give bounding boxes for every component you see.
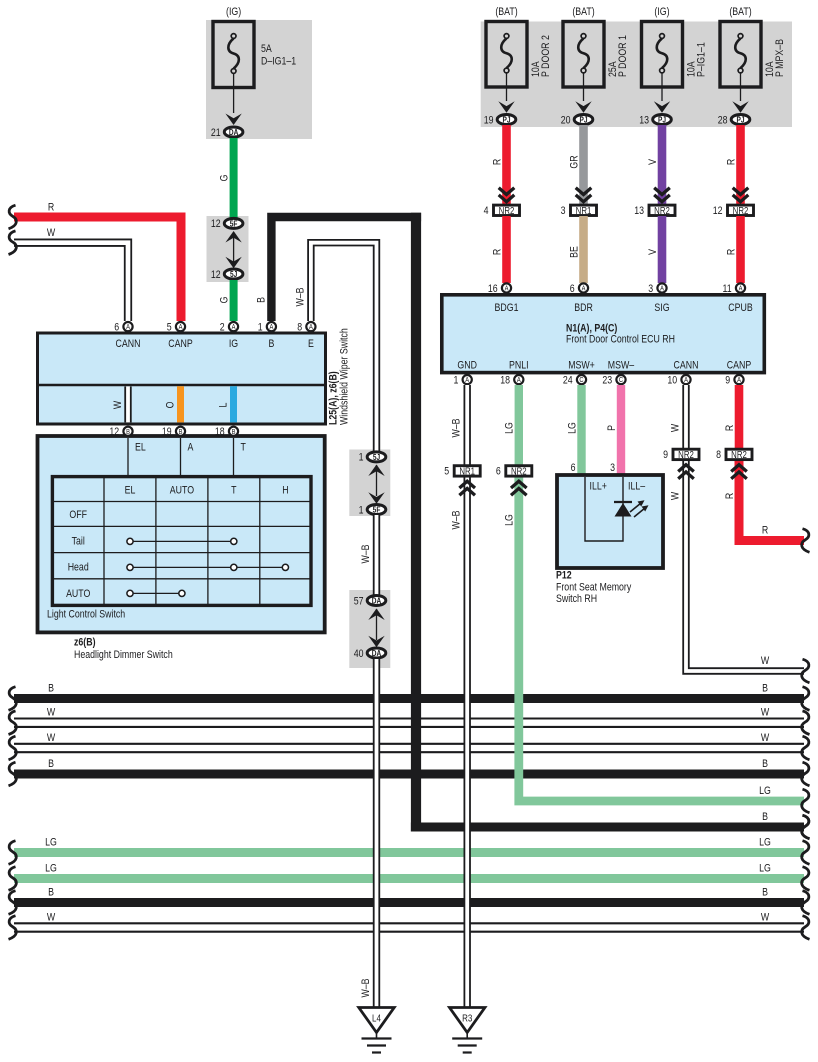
svg-text:6: 6 (571, 462, 576, 474)
pin 12 B (109, 426, 132, 438)
svg-text:W–B: W–B (360, 978, 372, 997)
svg-text:(BAT): (BAT) (572, 6, 594, 18)
svg-text:AUTO: AUTO (66, 588, 90, 600)
label V col3 lower (647, 249, 659, 255)
svg-text:MSW+: MSW+ (568, 360, 595, 372)
connector block background DA/DA (349, 590, 390, 668)
svg-text:6: 6 (496, 466, 501, 478)
fuse 25A P DOOR 1 box (563, 22, 604, 88)
label (BAT) fuse P DOOR 2 (495, 6, 517, 18)
svg-text:5J: 5J (230, 269, 237, 279)
wire R CANP upper (735, 385, 744, 449)
svg-text:BDR: BDR (574, 302, 593, 314)
svg-text:A: A (188, 442, 194, 454)
svg-text:A: A (660, 285, 664, 293)
wire W1 W horizontal bus y=722.7 (14, 717, 804, 728)
svg-text:11: 11 (723, 283, 733, 295)
svg-text:z6(B): z6(B) (74, 637, 96, 649)
svg-text:13: 13 (639, 114, 649, 126)
svg-text:10: 10 (667, 375, 677, 387)
label (BAT) fuse P MPX–B (729, 6, 751, 18)
svg-text:B: B (48, 682, 54, 694)
label W-B GND lower (451, 510, 463, 529)
svg-text:5: 5 (444, 466, 449, 478)
svg-text:W: W (761, 707, 770, 719)
squiggle R wire left end (9, 205, 17, 229)
svg-text:8: 8 (297, 322, 302, 334)
contacts Head row (127, 564, 289, 570)
svg-text:A: A (684, 377, 688, 385)
svg-text:A: A (517, 377, 521, 385)
svg-text:(IG): (IG) (226, 6, 241, 18)
svg-text:IG: IG (229, 338, 238, 350)
label 25A P DOOR 1 rotated (607, 35, 629, 77)
label G lower (219, 297, 231, 304)
svg-text:GND: GND (457, 360, 477, 372)
wire R NR2 to pin 16 (502, 216, 511, 283)
svg-text:EL: EL (125, 485, 136, 497)
svg-text:Headlight Dimmer Switch: Headlight Dimmer Switch (74, 649, 173, 661)
arrow fuse to node 21 DA (225, 74, 241, 125)
label LG PNLI lower (504, 514, 516, 526)
column stub A (181, 438, 194, 477)
label P12 Front Seat Memory Switch RH (556, 570, 631, 606)
svg-text:28: 28 (718, 114, 728, 126)
label W-B GND upper (451, 418, 463, 437)
svg-text:R: R (762, 524, 768, 536)
node 12 5J (211, 269, 243, 281)
svg-text:A: A (179, 324, 183, 332)
P12 internal wiring (585, 477, 623, 541)
svg-text:CANN: CANN (674, 360, 699, 372)
svg-text:W: W (761, 911, 770, 923)
svg-text:A: A (739, 285, 743, 293)
pin 6 A BDR (570, 283, 588, 295)
svg-text:V: V (647, 159, 659, 165)
svg-text:2: 2 (220, 322, 225, 334)
ECU top pin labels (495, 302, 754, 314)
svg-text:NR2: NR2 (499, 205, 515, 216)
arrow fuse P–IG1–1 to node 13 PJ (654, 73, 670, 113)
wire LG MSW+ to P12 (577, 385, 585, 476)
label BE col2 lower (568, 246, 580, 258)
fuse 10A P MPX–B box (720, 22, 761, 88)
svg-text:PJ: PJ (736, 115, 744, 125)
bus wire colour labels (45, 682, 771, 923)
wire W CANN to right edge (686, 460, 804, 671)
label (IG) fuse P–IG1–1 (654, 6, 669, 18)
svg-text:P: P (606, 425, 618, 431)
svg-text:1: 1 (258, 322, 263, 334)
svg-text:NR2: NR2 (654, 205, 670, 216)
svg-text:18: 18 (500, 375, 510, 387)
svg-text:D–IG1–1: D–IG1–1 (261, 56, 297, 68)
chevrons above 3 NR1 (576, 188, 592, 202)
wire W CANN upper (682, 385, 689, 449)
svg-text:B: B (762, 758, 768, 770)
svg-text:PJ: PJ (658, 115, 666, 125)
label 10A P–IG1–1 rotated (686, 42, 708, 77)
squiggle W wire left end (9, 231, 17, 255)
svg-text:A: A (737, 377, 741, 385)
svg-text:A: A (269, 324, 273, 332)
svg-text:24: 24 (563, 375, 573, 387)
LED illumination lamp (614, 500, 649, 517)
svg-text:20: 20 (561, 114, 571, 126)
svg-text:PJ: PJ (579, 115, 587, 125)
svg-text:P MPX–B: P MPX–B (774, 39, 786, 77)
svg-text:1: 1 (359, 504, 364, 516)
svg-text:OFF: OFF (69, 509, 87, 521)
side label L25(A) z6(B) Windshield Wiper Switch (328, 328, 351, 425)
label R CANP horizontal (762, 524, 768, 536)
svg-text:R: R (48, 202, 54, 214)
svg-text:CANP: CANP (168, 338, 193, 350)
connector 8 NR2 (716, 449, 752, 461)
svg-text:V: V (647, 249, 659, 255)
svg-text:C: C (579, 377, 583, 385)
svg-text:NR2: NR2 (733, 205, 749, 216)
ECU bottom pin labels (457, 360, 751, 372)
node 28 PJ (718, 114, 750, 126)
pin 5 A CANP (167, 322, 185, 334)
svg-text:G: G (219, 297, 231, 304)
svg-text:E: E (308, 338, 314, 350)
label (BAT) fuse P DOOR 1 (572, 6, 594, 18)
contacts AUTO row (127, 590, 185, 596)
pin 16 A BDG1 (488, 283, 511, 295)
wire W-B from pin E up and over (311, 243, 377, 451)
svg-text:LG: LG (759, 862, 771, 874)
svg-text:C: C (619, 377, 623, 385)
wire LG2 LG horizontal bus y=878.5 (14, 874, 804, 883)
arrow fuse P DOOR 2 to node 19 PJ (498, 73, 514, 113)
svg-text:12: 12 (211, 269, 221, 281)
svg-text:W: W (112, 400, 124, 409)
wire P MSW- to P12 (617, 385, 625, 476)
stub wire W inside switch (124, 387, 131, 423)
chevrons above 4 NR2 (499, 188, 515, 202)
svg-text:A: A (126, 324, 130, 332)
svg-text:O: O (164, 401, 176, 408)
svg-text:LG: LG (566, 422, 578, 434)
svg-text:NR1: NR1 (576, 205, 592, 216)
svg-text:NR2: NR2 (678, 449, 694, 460)
pin 9 A CANP (725, 375, 743, 387)
row label AUTO (66, 588, 90, 600)
wire W-B from DA to ground L4 (373, 659, 380, 1008)
chevrons below 5 NR1 (459, 481, 475, 495)
connector block background 5J/5F right (349, 450, 390, 517)
svg-text:5F: 5F (230, 219, 238, 229)
svg-text:(BAT): (BAT) (495, 6, 517, 18)
wire B3 B horizontal bus y=902.5 (14, 898, 804, 907)
fuse 10A P DOOR 2 box (486, 22, 527, 88)
pin 23 C MSW- (602, 375, 625, 387)
node 20 PJ (561, 114, 593, 126)
svg-text:Light Control Switch: Light Control Switch (47, 609, 125, 621)
label R (48, 202, 54, 214)
svg-text:57: 57 (354, 595, 364, 607)
svg-text:B: B (48, 758, 54, 770)
svg-text:W–B: W–B (451, 510, 463, 529)
svg-text:LG: LG (504, 514, 516, 526)
svg-text:40: 40 (354, 648, 364, 660)
bus wire continuation squiggles (9, 687, 810, 940)
svg-text:A: A (582, 285, 586, 293)
node 12 5F (211, 218, 243, 230)
chevrons above 13 NR2 (654, 188, 670, 202)
svg-text:13: 13 (634, 205, 644, 217)
pin labels CANN CANP IG B E (116, 338, 315, 350)
label O stub (164, 401, 176, 408)
svg-text:W: W (47, 707, 56, 719)
svg-text:R: R (725, 159, 737, 165)
svg-text:18: 18 (215, 426, 225, 438)
pin 19 B (162, 426, 185, 438)
svg-text:R: R (491, 159, 503, 165)
svg-text:5J: 5J (373, 452, 380, 462)
svg-text:3: 3 (648, 283, 653, 295)
svg-text:BE: BE (568, 246, 580, 258)
svg-text:DA: DA (229, 127, 239, 137)
svg-text:P DOOR 1: P DOOR 1 (617, 35, 629, 77)
connector 13 NR2 (634, 205, 675, 217)
label R col4 upper (725, 159, 737, 165)
label 10A P MPX–B rotated (764, 39, 786, 77)
fuse 5A D-IG1-1 box (213, 22, 254, 88)
svg-text:T: T (231, 485, 236, 497)
node 21 DA (211, 127, 243, 139)
node 1 5F (359, 504, 386, 516)
node 13 PJ (639, 114, 671, 126)
wire B from pin 1 up and over to bus (271, 213, 804, 832)
pin 3 A SIG (648, 283, 666, 295)
pin 11 A CPUB (723, 283, 746, 295)
label L stub (217, 402, 229, 407)
svg-text:AUTO: AUTO (170, 485, 194, 497)
chevrons below 9 NR2 (678, 465, 694, 479)
label B vertical near pin 1 (256, 297, 268, 303)
pin 1 A B (258, 322, 276, 334)
wire R CANP to right edge (739, 460, 804, 541)
connector 4 NR2 (484, 205, 520, 217)
ECU box N1(A) P4(C) Front Door Control ECU RH (442, 295, 765, 373)
wire R NR2 to pin 11 (736, 216, 745, 283)
svg-text:5A: 5A (261, 43, 272, 55)
contacts Tail row (127, 538, 237, 544)
svg-text:A: A (309, 324, 313, 332)
svg-text:B: B (126, 428, 130, 436)
wire V fuse3 to NR2 (658, 125, 667, 204)
label W CANN lower (670, 491, 682, 500)
svg-text:B: B (268, 338, 274, 350)
svg-text:B: B (256, 297, 268, 303)
svg-text:P–IG1–1: P–IG1–1 (696, 42, 708, 77)
label R col1 lower (491, 249, 503, 255)
connector 12 NR2 (713, 205, 754, 217)
pin 10 A CANN (667, 375, 690, 387)
svg-text:H: H (282, 485, 288, 497)
wire W-B GND to ground R3 (464, 477, 471, 1009)
svg-text:GR: GR (568, 155, 580, 168)
ground R3 (450, 1008, 485, 1053)
svg-text:9: 9 (725, 375, 730, 387)
svg-text:R: R (724, 425, 736, 431)
svg-text:P12: P12 (556, 570, 572, 582)
label W stub (112, 400, 124, 409)
column stub T (234, 438, 246, 477)
svg-text:NR2: NR2 (511, 466, 527, 477)
svg-text:5F: 5F (373, 505, 381, 515)
svg-text:Tail: Tail (72, 536, 85, 548)
svg-text:B: B (762, 682, 768, 694)
node 40 DA (354, 648, 386, 660)
arrow fuse P DOOR 1 to node 20 PJ (575, 73, 591, 113)
arrow DA to DA (368, 609, 384, 648)
pin 18 A PNLI (500, 375, 523, 387)
svg-text:PJ: PJ (502, 115, 510, 125)
wire W-B between 5F and DA (373, 515, 380, 595)
svg-text:4: 4 (484, 205, 489, 217)
pin 1 A GND (453, 375, 471, 387)
chevrons below 8 NR2 (731, 465, 747, 479)
svg-text:Windshield Wiper Switch: Windshield Wiper Switch (339, 328, 351, 425)
label W-B lower (360, 978, 372, 997)
squiggle W CANN right end (802, 659, 810, 683)
label R col4 lower (725, 249, 737, 255)
svg-text:1: 1 (453, 375, 458, 387)
wire LG PNLI upper (515, 385, 523, 465)
chevrons below 6 NR2 (511, 481, 527, 495)
label W (47, 227, 56, 239)
label W CANN horizontal (761, 655, 770, 667)
svg-text:PNLI: PNLI (509, 360, 529, 372)
wire W3 W horizontal bus y=927.5 (14, 922, 804, 933)
svg-text:LG: LG (759, 785, 771, 797)
connector 9 NR2 (663, 449, 699, 461)
fuse block background top-right (481, 22, 792, 128)
svg-text:CANN: CANN (116, 338, 141, 350)
light control switch box (38, 436, 325, 632)
label ILL+ (590, 481, 608, 493)
row label OFF (69, 509, 87, 521)
svg-text:L: L (217, 402, 229, 407)
label GR col2 upper (568, 155, 580, 168)
svg-text:B: B (48, 886, 54, 898)
svg-text:W: W (47, 732, 56, 744)
svg-text:DA: DA (372, 648, 382, 658)
P12 box (557, 475, 663, 568)
node 1 5J (359, 452, 386, 464)
light control switch contact table (52, 477, 311, 606)
svg-text:A: A (505, 285, 509, 293)
label W CANN upper (670, 423, 682, 432)
connector 6 NR2 (496, 466, 532, 478)
arrow 5F to 5J (225, 231, 241, 268)
label LG MSW+ (566, 422, 578, 434)
label z6(B) Headlight Dimmer Switch (74, 637, 173, 662)
svg-text:ILL+: ILL+ (590, 481, 608, 493)
svg-text:L4: L4 (372, 1013, 381, 1024)
svg-text:B: B (762, 811, 768, 823)
label 5A D-IG1-1 (261, 43, 297, 68)
ECU title (566, 323, 675, 346)
wire GR fuse2 to NR1 (579, 125, 588, 204)
arrow 5J to 5F (368, 465, 384, 504)
svg-text:12: 12 (211, 218, 221, 230)
svg-text:R3: R3 (462, 1013, 472, 1024)
svg-text:W: W (47, 227, 56, 239)
svg-text:NR2: NR2 (731, 449, 747, 460)
svg-text:A: A (465, 377, 469, 385)
svg-text:3: 3 (561, 205, 566, 217)
chevrons above 12 NR2 (733, 188, 749, 202)
ground L4 (359, 1008, 394, 1053)
label P MSW- (606, 425, 618, 431)
pin 18 B (215, 426, 238, 438)
wire R fuse1 to NR2 (502, 125, 511, 204)
svg-text:W–B: W–B (360, 544, 372, 563)
svg-text:B: B (762, 886, 768, 898)
label G upper (219, 175, 231, 182)
svg-text:(BAT): (BAT) (729, 6, 751, 18)
svg-text:12: 12 (713, 205, 723, 217)
wire BE NR1 to pin 6 (579, 216, 588, 283)
svg-text:12: 12 (109, 426, 119, 438)
svg-text:A: A (232, 324, 236, 332)
pin 24 C MSW+ (563, 375, 586, 387)
svg-text:W–B: W–B (451, 418, 463, 437)
wire LG PNLI to bus (519, 477, 804, 802)
connector 5 NR1 (444, 466, 480, 478)
pin 6 label P12 (571, 462, 576, 474)
svg-text:CANP: CANP (727, 360, 752, 372)
stub wire O inside switch (177, 386, 184, 422)
row label Head (68, 562, 89, 574)
wire W2 W horizontal bus y=748.0 (14, 743, 804, 754)
label LG PNLI upper (504, 422, 516, 434)
svg-text:Switch RH: Switch RH (556, 593, 597, 605)
svg-text:ILL–: ILL– (628, 481, 646, 493)
svg-text:MSW–: MSW– (608, 360, 635, 372)
pin 2 A IG (220, 322, 238, 334)
squiggle B-right wire right end (802, 815, 810, 839)
node 57 DA (354, 595, 386, 607)
wire G lower segment (230, 280, 238, 321)
label 10A P DOOR 2 rotated (530, 35, 552, 77)
svg-text:B: B (232, 428, 236, 436)
svg-text:R: R (724, 493, 736, 499)
svg-text:W: W (761, 655, 770, 667)
wire W-B GND upper (464, 385, 471, 465)
connector block background 5F/5J left (207, 216, 249, 282)
svg-text:W: W (47, 911, 56, 923)
svg-text:BDG1: BDG1 (495, 302, 519, 314)
svg-text:LG: LG (504, 422, 516, 434)
pin 3 label P12 (610, 462, 615, 474)
stub wire L inside switch (230, 386, 237, 422)
fuse 10A P–IG1–1 box (642, 22, 683, 88)
label R col1 upper (491, 159, 503, 165)
svg-text:16: 16 (488, 283, 498, 295)
svg-text:T: T (241, 442, 246, 454)
label W-B mid (360, 544, 372, 563)
svg-text:EL: EL (135, 442, 146, 454)
svg-text:W: W (670, 423, 682, 432)
windshield wiper switch box L25(A) z6(B) (38, 333, 326, 424)
svg-text:W–B: W–B (295, 287, 307, 306)
